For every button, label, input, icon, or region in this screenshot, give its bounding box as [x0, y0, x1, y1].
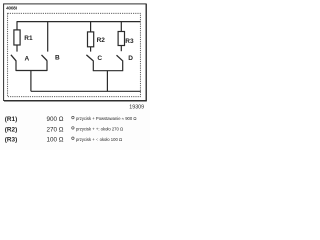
wire: R2 top lead — [90, 22, 92, 32]
legend row R2 bullet — [72, 127, 74, 129]
resistor R3 — [118, 32, 124, 46]
wire: top supply bus — [17, 22, 140, 30]
svg-text:270 Ω: 270 Ω — [47, 126, 64, 133]
svg-text:A: A — [25, 56, 30, 63]
legend row R1 bullet — [72, 116, 74, 118]
svg-text:C: C — [97, 55, 102, 62]
svg-text:R1: R1 — [24, 35, 33, 42]
svg-text:przycisk + -: około 100 Ω: przycisk + -: około 100 Ω — [76, 137, 122, 142]
svg-text:(R2): (R2) — [5, 126, 17, 133]
svg-text:D: D — [128, 55, 133, 62]
svg-text:B: B — [55, 54, 60, 61]
wire: bottom return bus to module edge — [31, 90, 141, 92]
svg-text:900 Ω: 900 Ω — [47, 116, 64, 123]
svg-text:przycisk + +: około 270 Ω: przycisk + +: około 270 Ω — [76, 127, 123, 132]
wire: switch A bottom lead + left join U — [16, 60, 47, 70]
wire: switch C bottom lead + right join U — [93, 60, 122, 70]
svg-text:(R3): (R3) — [5, 137, 17, 144]
resistor R2 — [88, 32, 94, 47]
svg-text:przycisk + Powstawanie ≈ 900 Ω: przycisk + Powstawanie ≈ 900 Ω — [76, 116, 136, 121]
svg-text:R3: R3 — [125, 38, 134, 45]
svg-text:4008i: 4008i — [6, 5, 17, 10]
module boundary (dashed) — [8, 13, 141, 96]
wire: right pair center drop to bottom bus — [106, 71, 108, 92]
svg-text:R2: R2 — [97, 37, 106, 44]
panel frame — [4, 4, 147, 101]
wire: R3 bottom lead — [120, 46, 122, 52]
wire: R1 bottom lead — [16, 45, 18, 52]
switch C blade — [86, 55, 93, 61]
resistor R1 — [14, 30, 20, 45]
wire: R2 bottom lead — [90, 47, 92, 52]
legend row R3 bullet — [72, 137, 74, 139]
switch A blade — [11, 55, 16, 61]
wire: R3 top lead — [120, 22, 122, 32]
svg-text:19309: 19309 — [129, 105, 144, 111]
svg-text:(R1): (R1) — [5, 116, 17, 123]
wire: switch B drop from top bus — [47, 22, 49, 52]
switch D blade — [117, 55, 123, 61]
svg-text:100 Ω: 100 Ω — [47, 137, 64, 144]
switch B blade — [42, 55, 47, 61]
wire: left pair center drop to bottom bus — [30, 71, 32, 92]
